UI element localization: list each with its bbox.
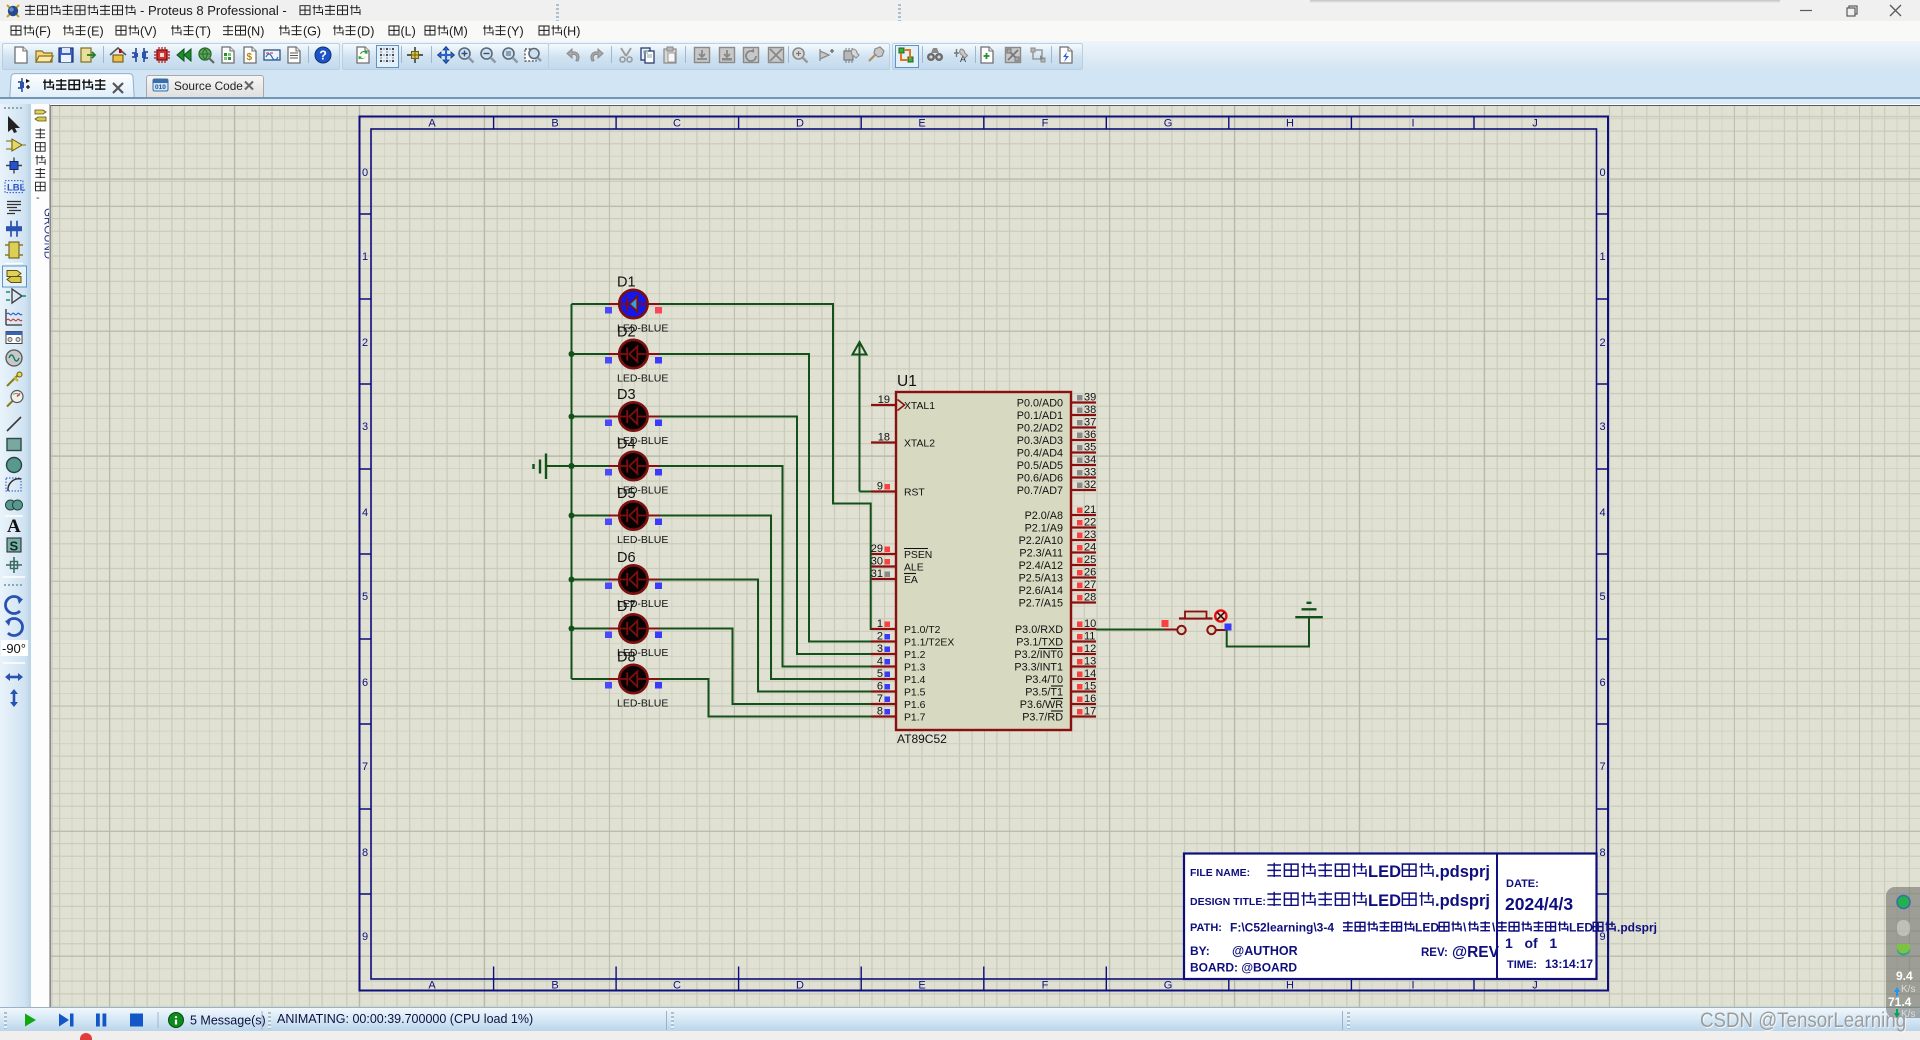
svg-text:2: 2 — [877, 631, 883, 643]
svg-text:1 of 1: 1 of 1 — [1505, 935, 1557, 951]
svg-text:U1: U1 — [897, 373, 917, 390]
pin 26 P2.5/A13 (right) — [1019, 567, 1097, 585]
svg-text:(T): (T) — [195, 25, 211, 39]
svg-text:F: F — [1042, 980, 1049, 992]
svg-text:I: I — [1411, 980, 1414, 992]
svg-text:7: 7 — [362, 761, 368, 773]
svg-text:33: 33 — [1084, 467, 1096, 479]
svg-text:P0.6/AD6: P0.6/AD6 — [1017, 473, 1063, 485]
svg-text:9: 9 — [362, 931, 368, 943]
svg-text:24: 24 — [1084, 542, 1096, 554]
svg-text:6: 6 — [877, 681, 883, 693]
pin 7 P1.6 (left) — [871, 693, 926, 711]
svg-text:25: 25 — [1084, 554, 1096, 566]
svg-text:LED: LED — [1569, 921, 1593, 935]
svg-text:36: 36 — [1084, 429, 1096, 441]
junction dot (bus / D5 wire) — [569, 513, 575, 519]
svg-text:LED: LED — [1368, 863, 1401, 881]
svg-text:A: A — [428, 118, 436, 130]
svg-text:9: 9 — [1599, 931, 1605, 943]
svg-text:P2.7/A15: P2.7/A15 — [1019, 598, 1063, 610]
svg-text:D3: D3 — [617, 387, 636, 403]
svg-text:.pdsprj: .pdsprj — [1435, 892, 1490, 910]
pin 3 P1.2 (left) — [871, 643, 926, 661]
svg-text:B: B — [551, 118, 558, 130]
svg-text:(L): (L) — [401, 25, 416, 39]
pin 2 P1.1/T2EX (left) — [871, 631, 954, 649]
pin 37 P0.2/AD2 (right) — [1017, 417, 1096, 435]
svg-text:P1.3: P1.3 — [904, 663, 926, 674]
svg-text:31: 31 — [871, 568, 883, 580]
svg-text:P3.2/INT0: P3.2/INT0 — [1014, 649, 1063, 661]
wire: button to ground — [1227, 618, 1309, 647]
svg-text:P3.0/RXD: P3.0/RXD — [1015, 624, 1063, 636]
svg-text:3: 3 — [877, 643, 883, 655]
svg-text:A: A — [428, 980, 436, 992]
svg-text:39: 39 — [1084, 392, 1096, 404]
svg-text:H: H — [1286, 118, 1294, 130]
svg-text:- Proteus 8 Professional -: - Proteus 8 Professional - — [140, 3, 287, 18]
pin 11 P3.1/TXD (right) — [1016, 631, 1096, 649]
pin 38 P0.1/AD1 (right) — [1017, 404, 1096, 422]
svg-text:P3.6/WR: P3.6/WR — [1020, 699, 1063, 711]
svg-text:P3.4/T0: P3.4/T0 — [1025, 674, 1063, 686]
svg-text:P0.3/AD3: P0.3/AD3 — [1017, 435, 1063, 447]
svg-text:0: 0 — [362, 167, 368, 179]
svg-text:D2: D2 — [617, 325, 636, 341]
ground symbol (left) — [534, 454, 547, 480]
svg-text:29: 29 — [871, 543, 883, 555]
svg-text:Source Code: Source Code — [174, 79, 243, 93]
wire: D2 anode to P1.1 — [659, 354, 871, 642]
pin 36 P0.3/AD3 (right) — [1017, 429, 1096, 447]
svg-text:@REV: @REV — [1452, 944, 1500, 961]
svg-text:1: 1 — [362, 251, 368, 263]
svg-text:(G): (G) — [303, 25, 321, 39]
svg-text:30: 30 — [871, 556, 883, 568]
wire: D3 anode to P1.2 — [659, 417, 871, 655]
svg-text:34: 34 — [1084, 454, 1096, 466]
svg-text:B: B — [551, 980, 558, 992]
wire: D7 anode to P1.6 — [659, 629, 871, 705]
wire: D1 anode to P1.0 (staircase) — [659, 304, 871, 629]
pin 10 P3.0/RXD (right) — [1015, 618, 1096, 636]
svg-text:ALE: ALE — [904, 563, 924, 574]
ground symbol (right, flipped) — [1295, 603, 1323, 617]
svg-text:DATE:: DATE: — [1506, 878, 1539, 890]
wire: P3.0 to button — [1096, 629, 1164, 631]
svg-text:S: S — [10, 539, 19, 554]
svg-text:DESIGN TITLE:: DESIGN TITLE: — [1190, 896, 1266, 908]
pin 39 P0.0/AD0 (right) — [1017, 392, 1096, 410]
svg-text:@AUTHOR: @AUTHOR — [1232, 944, 1298, 958]
svg-text:71.4: 71.4 — [1888, 995, 1912, 1009]
svg-text:4: 4 — [362, 507, 368, 519]
row numbers — [360, 214, 1609, 894]
svg-text:BOARD: @BOARD: BOARD: @BOARD — [1190, 961, 1297, 975]
svg-text:8: 8 — [362, 847, 368, 859]
svg-text:P0.1/AD1: P0.1/AD1 — [1017, 410, 1063, 422]
power terminal (VCC arrow) — [853, 342, 867, 492]
svg-text:PSEN: PSEN — [904, 550, 932, 561]
pin 32 P0.7/AD7 (right) — [1017, 479, 1096, 497]
svg-text:P3.5/T1: P3.5/T1 — [1025, 687, 1063, 699]
svg-text:2024/4/3: 2024/4/3 — [1505, 894, 1573, 914]
svg-text:FILE NAME:: FILE NAME: — [1190, 867, 1250, 879]
svg-text:G: G — [1164, 980, 1173, 992]
svg-text:4: 4 — [1599, 507, 1605, 519]
svg-text:5 Message(s): 5 Message(s) — [190, 1014, 266, 1028]
column letters — [494, 117, 1474, 991]
svg-text:P0.5/AD5: P0.5/AD5 — [1017, 460, 1063, 472]
sheet inner border — [371, 129, 1597, 979]
svg-text:16: 16 — [1084, 693, 1096, 705]
svg-text:9.4: 9.4 — [1896, 969, 1913, 983]
svg-text:3: 3 — [362, 421, 368, 433]
svg-text:GROUND: GROUND — [42, 208, 50, 259]
svg-text:K/s: K/s — [1901, 984, 1915, 995]
svg-text:P3.7/RD: P3.7/RD — [1022, 712, 1063, 724]
node: red state square on P3.0 wire — [1162, 620, 1169, 627]
svg-text:P1.2: P1.2 — [904, 650, 926, 661]
svg-text:F:\C52learning\3-4: F:\C52learning\3-4 — [1230, 921, 1334, 935]
svg-text:10: 10 — [1084, 618, 1096, 630]
svg-text:22: 22 — [1084, 517, 1096, 529]
svg-text:J: J — [1532, 118, 1538, 130]
svg-text:32: 32 — [1084, 479, 1096, 491]
svg-text:(E): (E) — [87, 25, 104, 39]
svg-text:P2.4/A12: P2.4/A12 — [1019, 560, 1063, 572]
svg-text:LED-BLUE: LED-BLUE — [617, 534, 668, 546]
svg-text:18: 18 — [878, 432, 890, 444]
svg-text:12: 12 — [1084, 643, 1096, 655]
pin 35 P0.4/AD4 (right) — [1017, 442, 1096, 460]
junction dot (bus / D3 wire) — [569, 414, 575, 420]
pin 27 P2.6/A14 (right) — [1019, 579, 1097, 597]
svg-text:AT89C52: AT89C52 — [897, 732, 947, 746]
svg-text:P1.6: P1.6 — [904, 700, 926, 711]
svg-text:P3.3/INT1: P3.3/INT1 — [1014, 662, 1063, 674]
svg-text:P2.5/A13: P2.5/A13 — [1019, 573, 1063, 585]
LED D5 (LED-BLUE) — [572, 486, 669, 546]
svg-text:5: 5 — [877, 668, 883, 680]
pin 4 P1.3 (left) — [871, 656, 926, 674]
svg-text:7: 7 — [877, 693, 883, 705]
pin 9 RST (left) — [871, 481, 925, 499]
junction dot (bus / D2 wire) — [569, 351, 575, 357]
svg-text:13: 13 — [1084, 656, 1096, 668]
junction dot (bus / D6 wire) — [569, 577, 575, 583]
svg-text:14: 14 — [1084, 668, 1096, 680]
svg-text:26: 26 — [1084, 567, 1096, 579]
svg-text:37: 37 — [1084, 417, 1096, 429]
svg-text:(H): (H) — [563, 25, 580, 39]
svg-text:-90°: -90° — [2, 641, 26, 656]
svg-text:G: G — [1164, 118, 1173, 130]
svg-text:P1.1/T2EX: P1.1/T2EX — [904, 638, 954, 649]
pin 18 XTAL2 (left) — [871, 432, 935, 450]
svg-text:LBL: LBL — [7, 183, 26, 194]
svg-text:TIME:: TIME: — [1507, 959, 1537, 971]
svg-text:E: E — [918, 980, 925, 992]
svg-text:5: 5 — [1599, 591, 1605, 603]
svg-text:C: C — [673, 118, 681, 130]
svg-text:D6: D6 — [617, 550, 636, 566]
LED D2 (LED-BLUE) — [572, 325, 669, 385]
pin 28 P2.7/A15 (right) — [1019, 592, 1097, 610]
pin 15 P3.5/T1 (right) — [1025, 681, 1096, 699]
svg-text:?: ? — [319, 49, 327, 63]
svg-text:010: 010 — [155, 84, 166, 91]
svg-text:D8: D8 — [617, 650, 636, 666]
pin 8 P1.7 (left) — [871, 706, 926, 724]
svg-text:28: 28 — [1084, 592, 1096, 604]
svg-text:27: 27 — [1084, 579, 1096, 591]
pin 13 P3.3/INT1 (right) — [1014, 656, 1096, 674]
svg-text:P2.0/A8: P2.0/A8 — [1025, 510, 1063, 522]
svg-text:6: 6 — [1599, 677, 1605, 689]
pin 5 P1.4 (left) — [871, 668, 926, 686]
pin 19 XTAL1 (left) — [871, 394, 935, 412]
svg-text:P0.2/AD2: P0.2/AD2 — [1017, 423, 1063, 435]
pin 25 P2.4/A12 (right) — [1019, 554, 1097, 572]
pin 17 P3.7/RD (right) — [1022, 706, 1096, 724]
svg-text:13:14:17: 13:14:17 — [1545, 957, 1593, 971]
svg-text:38: 38 — [1084, 404, 1096, 416]
svg-text:5: 5 — [362, 591, 368, 603]
svg-text:$: $ — [247, 52, 253, 63]
svg-text:21: 21 — [1084, 504, 1096, 516]
svg-text:(F): (F) — [35, 25, 51, 39]
sheet outer border — [360, 117, 1609, 991]
svg-text:XTAL2: XTAL2 — [904, 439, 935, 450]
svg-text:2: 2 — [362, 337, 368, 349]
svg-text:19: 19 — [878, 394, 890, 406]
pin 24 P2.3/A11 (right) — [1019, 542, 1096, 560]
junction dot (bus / D7 wire) — [569, 626, 575, 632]
svg-text:(D): (D) — [357, 25, 374, 39]
LED D4 (LED-BLUE) — [572, 437, 669, 497]
svg-text:7: 7 — [1599, 761, 1605, 773]
svg-text:(V): (V) — [140, 25, 157, 39]
pin 33 P0.6/AD6 (right) — [1017, 467, 1096, 485]
svg-text:LED: LED — [1368, 892, 1401, 910]
pin 1 P1.0/T2 (left) — [871, 618, 941, 636]
svg-text:2: 2 — [1599, 337, 1605, 349]
svg-text:P0.7/AD7: P0.7/AD7 — [1017, 485, 1063, 497]
svg-text:.pdsprj: .pdsprj — [1617, 921, 1657, 935]
pin 6 P1.5 (left) — [871, 681, 926, 699]
wire: D4 anode to P1.3 — [659, 466, 871, 667]
svg-text:15: 15 — [1084, 681, 1096, 693]
push button (switch) — [1164, 612, 1227, 635]
svg-text:D5: D5 — [617, 486, 636, 502]
svg-text:P1.0/T2: P1.0/T2 — [904, 625, 941, 636]
pin 16 P3.6/WR (right) — [1020, 693, 1096, 711]
svg-text:LED-BLUE: LED-BLUE — [617, 698, 668, 710]
svg-text:.pdsprj: .pdsprj — [1435, 863, 1490, 881]
svg-text:17: 17 — [1084, 706, 1096, 718]
svg-text:P0.0/AD0: P0.0/AD0 — [1017, 398, 1063, 410]
junction dot (bus / ground) — [569, 463, 575, 469]
svg-text:LED: LED — [1415, 921, 1439, 935]
wire: power to RST pin 9 — [860, 491, 872, 493]
pin 29 PSEN (left) — [871, 543, 933, 561]
svg-text:P2.2/A10: P2.2/A10 — [1019, 535, 1063, 547]
svg-text:F: F — [1042, 118, 1049, 130]
svg-text:D: D — [796, 118, 804, 130]
button interactive marker (red target) — [1215, 610, 1226, 621]
svg-text:D7: D7 — [617, 599, 636, 615]
svg-text:REV:: REV: — [1421, 947, 1448, 959]
svg-text:LED-BLUE: LED-BLUE — [617, 373, 668, 385]
svg-text:A: A — [7, 516, 21, 537]
svg-text:P0.4/AD4: P0.4/AD4 — [1017, 448, 1063, 460]
svg-text:D: D — [796, 980, 804, 992]
op-amp U1 AT89C52 microcontroller body — [896, 373, 1071, 746]
svg-text:P2.6/A14: P2.6/A14 — [1019, 585, 1063, 597]
svg-text:35: 35 — [1084, 442, 1096, 454]
svg-text:P1.4: P1.4 — [904, 675, 926, 686]
svg-text:C: C — [673, 980, 681, 992]
svg-text:23: 23 — [1084, 529, 1096, 541]
svg-text:XTAL1: XTAL1 — [904, 401, 935, 412]
wire: D6 anode to P1.5 — [659, 580, 871, 692]
LED D3 (LED-BLUE) — [572, 387, 669, 447]
svg-text:D4: D4 — [617, 437, 636, 453]
wire: ground bus vertical — [571, 304, 573, 679]
node: blue state square right of button — [1225, 624, 1232, 631]
svg-text:1: 1 — [877, 618, 883, 630]
LED D8 (LED-BLUE) — [572, 650, 669, 710]
svg-text:0: 0 — [1599, 167, 1605, 179]
svg-text:PATH:: PATH: — [1190, 922, 1222, 934]
svg-text:11: 11 — [1084, 631, 1095, 643]
svg-text:I: I — [1411, 118, 1414, 130]
pin 22 P2.1/A9 (right) — [1025, 517, 1097, 535]
pin 14 P3.4/T0 (right) — [1025, 668, 1096, 686]
svg-text:EA: EA — [904, 575, 918, 586]
pin 34 P0.5/AD5 (right) — [1017, 454, 1096, 472]
pin 30 ALE (left) — [871, 556, 924, 574]
pin 12 P3.2/INT0 (right) — [1014, 643, 1096, 661]
svg-text:P1.5: P1.5 — [904, 688, 926, 699]
LED D6 (LED-BLUE) — [572, 550, 669, 610]
LED D1 (LED-BLUE) — [572, 275, 669, 335]
svg-text:4: 4 — [877, 656, 883, 668]
LED D7 (LED-BLUE) — [572, 599, 669, 659]
svg-text:9: 9 — [877, 481, 883, 493]
wire: ground stub to bus — [546, 465, 572, 467]
svg-text:1: 1 — [1599, 251, 1605, 263]
wire: D8 anode to P1.7 — [659, 679, 871, 717]
svg-text:(M): (M) — [449, 25, 468, 39]
svg-text:8: 8 — [877, 706, 883, 718]
svg-text:BY:: BY: — [1190, 944, 1210, 958]
svg-text:P1.7: P1.7 — [904, 713, 926, 724]
svg-text:RST: RST — [904, 488, 925, 499]
svg-text:-: - — [36, 192, 40, 204]
wire: D5 anode to P1.4 — [659, 516, 871, 680]
svg-text:J: J — [1532, 980, 1538, 992]
svg-text:D1: D1 — [617, 275, 636, 291]
svg-text:3: 3 — [1599, 421, 1605, 433]
svg-text:E: E — [918, 118, 925, 130]
svg-text:H: H — [1286, 980, 1294, 992]
svg-text:6: 6 — [362, 677, 368, 689]
svg-text:(N): (N) — [247, 25, 264, 39]
svg-text:8: 8 — [1599, 847, 1605, 859]
junction dot (bus / D4 wire) — [569, 463, 575, 469]
svg-text:P2.1/A9: P2.1/A9 — [1025, 523, 1063, 535]
pin 21 P2.0/A8 (right) — [1025, 504, 1097, 522]
pin 23 P2.2/A10 (right) — [1019, 529, 1097, 547]
title block — [1184, 854, 1657, 980]
svg-text:P2.3/A11: P2.3/A11 — [1019, 548, 1063, 560]
svg-text:P3.1/TXD: P3.1/TXD — [1016, 637, 1063, 649]
svg-text:(Y): (Y) — [507, 25, 524, 39]
pin 31 EA (left) — [871, 568, 918, 586]
